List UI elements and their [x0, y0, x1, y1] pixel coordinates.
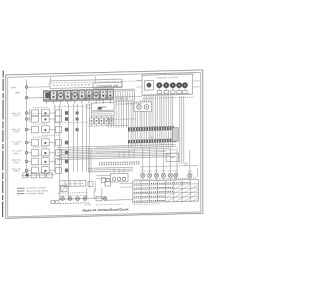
wire dashed enclosure top: [50, 81, 142, 83]
wire stub into unit a: [136, 79, 142, 81]
relay row 2 (filter + coil): [28, 118, 32, 120]
converter left cell marks: [53, 84, 90, 87]
terminal designation grid: [133, 179, 199, 202]
harness label smudge 1: [96, 146, 132, 149]
label row under arresters: [60, 202, 90, 205]
terminal block TB4: [60, 180, 86, 186]
wire harness horizontal run: [57, 146, 176, 149]
component R1: [102, 178, 106, 183]
svg-text:SPARE: SPARE: [11, 86, 18, 89]
wire feed from frame: [49, 77, 51, 81]
label row mid (dashes upper): [99, 162, 140, 163]
inductor L5 (dark toroid): [182, 82, 188, 88]
band inter-box marks: [49, 93, 51, 100]
wire vertical links left-centre: [54, 104, 56, 172]
wire box to frame b: [193, 86, 200, 88]
grid cell text smudge: [134, 183, 190, 184]
svg-text:LINE 2: LINE 2: [13, 171, 20, 173]
relay K5 contact box: [72, 90, 78, 100]
arrester gap row E1-E5: [58, 198, 106, 199]
arrester E11: [174, 173, 178, 177]
svg-text:CONVERTER UNIT: CONVERTER UNIT: [96, 85, 119, 89]
wire from terminal TB3-2: [28, 97, 44, 99]
wire risers bottom centre: [86, 188, 88, 199]
relay K3 contact box: [58, 90, 64, 100]
relay K1 contact box: [44, 91, 50, 101]
relay K8 contact box: [93, 89, 99, 99]
grid spare-cell slashes: [166, 194, 174, 198]
relay row 5 (filter + coil): [28, 152, 32, 154]
inductor L2 (dark toroid): [163, 82, 169, 88]
toroid terminal labels: [157, 90, 161, 93]
terminal TB3-3: [25, 112, 28, 115]
relay K10 crossbar: [93, 113, 113, 115]
relay row 7 (filter + coil): [28, 169, 32, 171]
drawing frame outer border: [6, 70, 203, 218]
toroid row tie wire: [157, 84, 188, 87]
arrester E7: [148, 173, 152, 177]
relay row 1 (filter + coil): [28, 112, 32, 114]
wire stub K9 left b: [87, 107, 92, 109]
svg-text:NOTES: NOTES: [85, 204, 92, 206]
wire bus below strip 2: [128, 143, 130, 148]
label row under unit box: [143, 97, 195, 98]
arrester E12: [188, 173, 192, 177]
terminal TB3-1: [25, 86, 28, 89]
converter unit label box: [93, 82, 122, 88]
terminal TB3-6: [25, 141, 28, 144]
transformer T1 box: [134, 102, 152, 112]
converter unit box: [50, 79, 122, 88]
wire stub grid row1: [120, 182, 133, 184]
svg-text:LINE 1: LINE 1: [13, 162, 20, 164]
relay K9 contact box: [100, 89, 106, 99]
component box upper mid: [114, 91, 135, 102]
relay K10 contact box: [107, 89, 113, 99]
wire band top rail: [43, 89, 135, 91]
arrester E9: [161, 173, 165, 177]
inductor L3 (dark toroid): [170, 82, 176, 88]
wire bus between strips: [128, 131, 130, 139]
wire box to frame a: [193, 80, 200, 82]
relay row 6 (filter + coil): [28, 160, 32, 162]
arrester E8: [154, 173, 158, 177]
wire riser centre x89: [89, 104, 91, 188]
terminal TB3-5: [25, 128, 28, 131]
inductor L1 (dark toroid): [156, 82, 162, 88]
wire legs to lightning arresters: [142, 148, 144, 174]
wire bus group B (to strip 1): [128, 101, 130, 128]
label smudge relay zone c: [42, 134, 60, 136]
coil box Z1: [96, 174, 111, 176]
relay K6 contact box: [79, 90, 85, 100]
arrester E10: [168, 173, 172, 177]
aux box TB4 right b: [105, 181, 111, 186]
wire feed from frame b: [95, 76, 97, 83]
relay K9 dark core: [98, 107, 102, 110]
terminal TB3-2: [25, 96, 28, 99]
label above terminal unit: [142, 73, 196, 74]
terminal TB3-8: [25, 160, 28, 163]
terminal strip TB1 (dark): [128, 128, 175, 129]
label smudge relay zone a: [55, 105, 88, 108]
wire stub grid row2: [120, 186, 133, 188]
diode bank CR2-CR6: [90, 118, 94, 124]
relay K10 box: [91, 112, 114, 117]
terminal TB3-4: [25, 118, 28, 121]
grid column headers: [134, 178, 196, 180]
wire right riser single: [189, 150, 191, 173]
label dashes below grid: [134, 203, 160, 206]
wire stub into unit b: [136, 86, 142, 88]
strip end junction box: [172, 128, 178, 142]
wire 24V supply bus (left vertical): [26, 79, 28, 176]
terminal unit box: [142, 74, 193, 95]
svg-text:EXTERNAL WIRING: EXTERNAL WIRING: [26, 192, 45, 195]
wire collector run: [88, 125, 128, 126]
wire riser TB4: [95, 181, 97, 192]
wire bus group A (to strip 1): [108, 116, 110, 127]
capacitor C1: [87, 94, 91, 98]
label above T1: [140, 100, 150, 102]
terminal TB3-10: [26, 174, 29, 177]
harness label smudge 2: [96, 151, 132, 154]
relay K2 contact box: [51, 91, 57, 101]
wire stub K9 left a: [87, 104, 92, 106]
relay row 4 (filter + coil): [28, 142, 32, 144]
relay K4 contact box: [65, 90, 71, 100]
svg-text:LINE 2: LINE 2: [13, 131, 20, 133]
svg-text:LINE 2: LINE 2: [13, 153, 20, 155]
relay row 3 (filter + coil): [28, 129, 32, 131]
terminal TB3-7: [25, 151, 28, 154]
svg-text:24V: 24V: [15, 93, 20, 95]
bus label row a: [116, 102, 142, 105]
label above arrester row: [58, 191, 88, 194]
wire return bus (left vertical 2): [29, 108, 31, 122]
legend line 2: [17, 190, 25, 192]
meter M1 box: [145, 80, 154, 90]
bus label row b: [107, 118, 136, 121]
wire band bottom rail: [43, 100, 112, 102]
transformer T1 winding B: [144, 105, 149, 110]
wire right frame stub: [196, 168, 198, 177]
rectifier CR1 (dark): [45, 92, 50, 98]
wire to terminal grid: [106, 199, 133, 202]
drawing frame inner border: [8, 72, 201, 217]
connector lugs bottom left: [51, 200, 55, 203]
label row mid (dashes lower): [99, 164, 140, 165]
band lower tie rail: [44, 98, 113, 100]
switch S1 box: [61, 185, 68, 191]
page left edge shadow: [2, 71, 5, 218]
wire from terminal TB3-1: [28, 86, 50, 89]
relay K7 contact box: [86, 90, 92, 100]
inductor L4 (dark toroid): [176, 82, 182, 88]
wire sub-band run: [105, 95, 142, 98]
band backdrop: [43, 88, 114, 100]
wire right riser trio: [179, 96, 181, 163]
label dashes above caption: [96, 203, 122, 206]
relay K9 box: [91, 103, 114, 111]
svg-text:LINE 1: LINE 1: [13, 144, 20, 146]
legend line 3: [17, 193, 25, 195]
terminal strip TB2 (dark): [128, 140, 176, 141]
arrester E6: [141, 173, 145, 177]
svg-text:LINE 1: LINE 1: [13, 115, 20, 117]
wire lower harness run: [88, 167, 133, 168]
terminal TB3-9: [25, 169, 28, 172]
transformer T1 winding A: [137, 105, 142, 110]
svg-text:TERMINAL UNIT 402A: TERMINAL UNIT 402A: [156, 76, 178, 80]
legend line 1: [17, 187, 25, 189]
aux box TB4 right a: [88, 181, 93, 186]
label row under toroids: [144, 94, 191, 95]
junction box J1: [166, 153, 178, 162]
wire ground run: [140, 165, 199, 166]
fuse row F1-F4: [22, 174, 56, 177]
label smudge relay zone b: [55, 121, 88, 124]
